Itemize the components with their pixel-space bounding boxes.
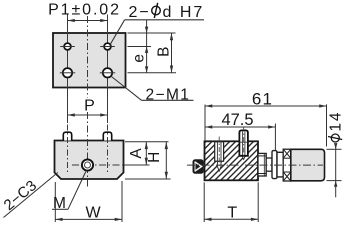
knurled ring xyxy=(283,149,291,181)
svg-text:B: B xyxy=(155,47,172,57)
svg-text:2−M1: 2−M1 xyxy=(146,87,191,104)
svg-text:e: e xyxy=(130,54,147,63)
svg-text:d H7: d H7 xyxy=(163,4,205,21)
pin boss left xyxy=(63,132,71,140)
pin boss right xyxy=(103,132,111,140)
label 2-M1 with leader xyxy=(110,76,193,104)
svg-text:W: W xyxy=(85,205,101,222)
centerline left hole column xyxy=(67,15,69,124)
svg-text:T: T xyxy=(227,204,237,221)
svg-text:A: A xyxy=(128,148,145,159)
dimension A xyxy=(128,142,147,165)
svg-text:H: H xyxy=(146,152,163,163)
side view body section xyxy=(205,141,259,180)
dimension phi-14 xyxy=(327,111,344,198)
hole M1 bottom-left xyxy=(60,68,75,77)
hole phi-d top-left xyxy=(60,43,75,50)
svg-text:47.5: 47.5 xyxy=(221,111,253,129)
label 2-C3 with leader xyxy=(1,173,58,218)
centerline front view horizontal dash-dot xyxy=(72,164,124,166)
extension line front top edge right xyxy=(125,141,169,143)
svg-text:61: 61 xyxy=(252,89,273,108)
locating pin side view xyxy=(239,127,248,161)
extension line hole row 2 xyxy=(128,72,177,74)
hole M1 bottom-right xyxy=(100,68,115,77)
dimension P1±0.02 xyxy=(48,2,121,21)
top view plate xyxy=(53,33,126,88)
centerline pin left xyxy=(67,125,69,173)
dimension e xyxy=(130,20,148,73)
knob xyxy=(291,149,325,181)
extension line front bottom edge right xyxy=(125,178,171,180)
svg-text:P: P xyxy=(84,98,95,115)
shank xyxy=(258,153,266,176)
dimension B xyxy=(155,33,172,73)
svg-text:2−: 2− xyxy=(129,4,151,21)
dimension P xyxy=(68,98,108,116)
dimension 61 xyxy=(205,89,327,146)
extension line plate top edge right xyxy=(128,32,176,34)
svg-text:14: 14 xyxy=(328,111,344,132)
extension line hole row 1 xyxy=(128,46,152,48)
neck xyxy=(266,158,272,171)
front view body xyxy=(55,141,124,180)
set screw left protrusion xyxy=(193,159,204,174)
dimension T xyxy=(204,182,258,222)
centerline top view vertical dash-dot xyxy=(87,16,89,98)
centerline front view vertical dash-dot xyxy=(87,112,89,188)
dimension W xyxy=(55,181,122,222)
svg-text:P1±0.02: P1±0.02 xyxy=(48,2,121,19)
dimension H xyxy=(146,142,167,179)
cylinder collar xyxy=(277,152,283,177)
dimension 47.5 xyxy=(205,111,275,150)
counterbore hole side view xyxy=(215,137,224,172)
label 2-phi-d H7 with leader xyxy=(110,3,204,45)
centerline right hole column xyxy=(107,15,109,124)
hole phi-d top-right xyxy=(100,43,115,50)
tapped hole M front view xyxy=(82,159,93,170)
centerline side view horizontal dash-dot xyxy=(187,164,323,166)
centerline pin right xyxy=(107,125,109,173)
label M with leader xyxy=(52,172,86,213)
flange xyxy=(272,151,277,179)
